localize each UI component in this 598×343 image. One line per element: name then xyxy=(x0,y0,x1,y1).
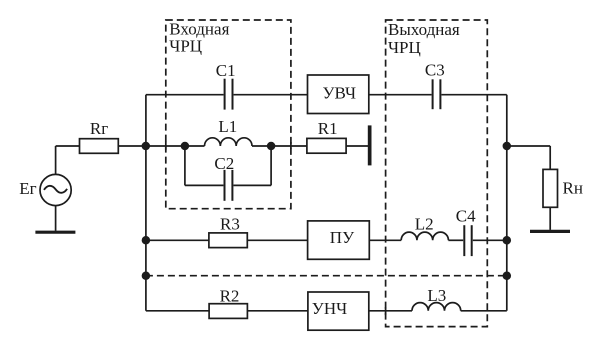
svg-text:R1: R1 xyxy=(318,119,338,138)
svg-text:Rн: Rн xyxy=(563,179,583,198)
svg-text:ЧРЦ: ЧРЦ xyxy=(388,38,421,57)
svg-text:Rг: Rг xyxy=(90,119,108,138)
svg-text:C1: C1 xyxy=(216,61,236,80)
svg-text:Выходная: Выходная xyxy=(388,20,460,39)
svg-text:ПУ: ПУ xyxy=(330,228,355,247)
svg-text:R3: R3 xyxy=(220,215,240,234)
svg-text:Ег: Ег xyxy=(19,179,36,198)
svg-text:УНЧ: УНЧ xyxy=(312,299,347,318)
svg-text:L1: L1 xyxy=(218,117,237,136)
svg-text:R2: R2 xyxy=(220,286,240,305)
svg-text:C2: C2 xyxy=(214,154,234,173)
svg-text:УВЧ: УВЧ xyxy=(323,84,357,103)
svg-text:C4: C4 xyxy=(456,207,476,226)
svg-text:L3: L3 xyxy=(427,286,446,305)
svg-text:ЧРЦ: ЧРЦ xyxy=(169,37,202,56)
svg-text:L2: L2 xyxy=(415,215,434,234)
svg-text:C3: C3 xyxy=(425,60,445,79)
